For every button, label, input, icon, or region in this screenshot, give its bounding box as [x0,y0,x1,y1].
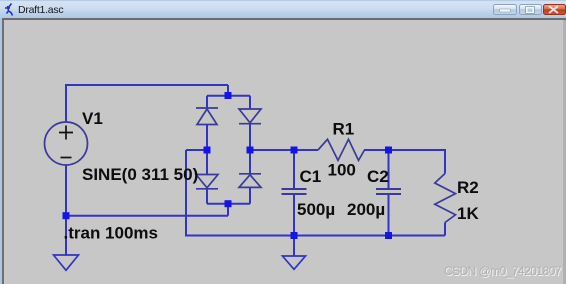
wire D1 anode to mid-left node [206,125,208,151]
value 500u [297,200,335,219]
node junction V1 return [63,212,70,219]
voltage source V1 [45,122,88,165]
minimize button [493,4,517,15]
wire D2 cathode to mid-right node [249,124,251,151]
wire bottom rail [185,235,445,237]
close button [543,4,566,15]
wire mid-right node to D4 cathode [249,150,251,174]
wire C2 bottom lead [388,194,390,235]
close glyph X [550,7,558,13]
node junction top bridge [225,92,232,99]
wire R2 bottom lead [444,223,446,236]
diode D3 (bottom-left, pointing down) [196,175,218,189]
label V1 [82,109,103,128]
node junction C2 bottom [385,232,392,239]
ground under C1 [283,256,306,269]
wire R1 right to R2 corner [364,149,445,151]
value 100 [328,161,356,180]
wire D3 cathode down [206,189,208,204]
label R1 [333,120,355,139]
wire stub to D2 anode [249,96,251,109]
node junction C1 top [291,147,298,154]
wire C1 bottom lead [293,194,295,235]
node junction C2 top [385,147,392,154]
maximize glyph [526,7,535,14]
capacitor C2 [376,189,401,194]
label C1 [300,167,322,186]
value 200u [347,200,385,219]
node junction mid-right [247,147,254,154]
label R2 [457,178,479,197]
wire mid-left node to left drop [186,149,207,151]
LTspice app icon [5,4,13,16]
watermark [444,264,561,278]
wire R2 top lead [444,149,446,174]
label C2 [367,167,389,186]
wire D4 anode down [249,187,251,203]
capacitor C1 [282,189,307,194]
wire stub to D1 cathode [206,96,208,108]
svg-text:.tran 100ms: .tran 100ms [64,224,159,243]
svg-text:1K: 1K [457,204,479,223]
svg-text:500µ: 500µ [297,200,335,219]
node junction C1 bottom [291,232,298,239]
diode D1 (top-left, pointing up) [196,108,218,125]
directive .tran 100ms [64,224,159,243]
diode D4 (bottom-right, pointing up) [239,174,261,188]
wire drop to bridge top node [227,85,229,96]
value 1K [457,204,479,223]
wire mid-left node to D3 anode [206,150,208,175]
resistor R2 [435,174,456,223]
svg-text:R2: R2 [457,178,479,197]
svg-text:100: 100 [328,161,356,180]
wire bridge bottom rail [207,203,250,205]
window frame borders [0,18,566,20]
svg-text:C1: C1 [300,167,322,186]
wire C1 node to ground [293,236,295,257]
svg-text:200µ: 200µ [347,200,385,219]
resistor R1 [318,139,365,160]
node junction mid-left [204,147,211,154]
svg-text:SINE(0 311 50): SINE(0 311 50) [82,165,198,184]
wire bottom node stub down [227,204,229,216]
maximize button [519,4,542,15]
wire mid-right node to output [250,149,318,151]
minimize glyph [500,9,511,12]
diode D2 (top-right, pointing down) [239,109,261,124]
wire V1 top lead [65,85,67,122]
svg-text:R1: R1 [333,120,355,139]
title text Draft1.asc [18,4,63,16]
node junction bridge bottom [225,200,232,207]
ground under V1 [54,255,79,270]
wire bridge top rail [207,95,250,97]
wire V1 bottom lead [65,165,67,216]
wire left vertical to bottom rail [185,150,187,236]
wire C1 top lead [293,150,295,188]
wire top horizontal [65,84,228,86]
value SINE(0 311 50) [82,165,198,184]
wire V1 node to ground [65,216,67,255]
svg-text:C2: C2 [367,167,389,186]
svg-text:V1: V1 [82,109,103,128]
wire C2 top lead [388,150,390,188]
window title bar [0,0,566,18]
wire return to V1 [66,215,228,217]
